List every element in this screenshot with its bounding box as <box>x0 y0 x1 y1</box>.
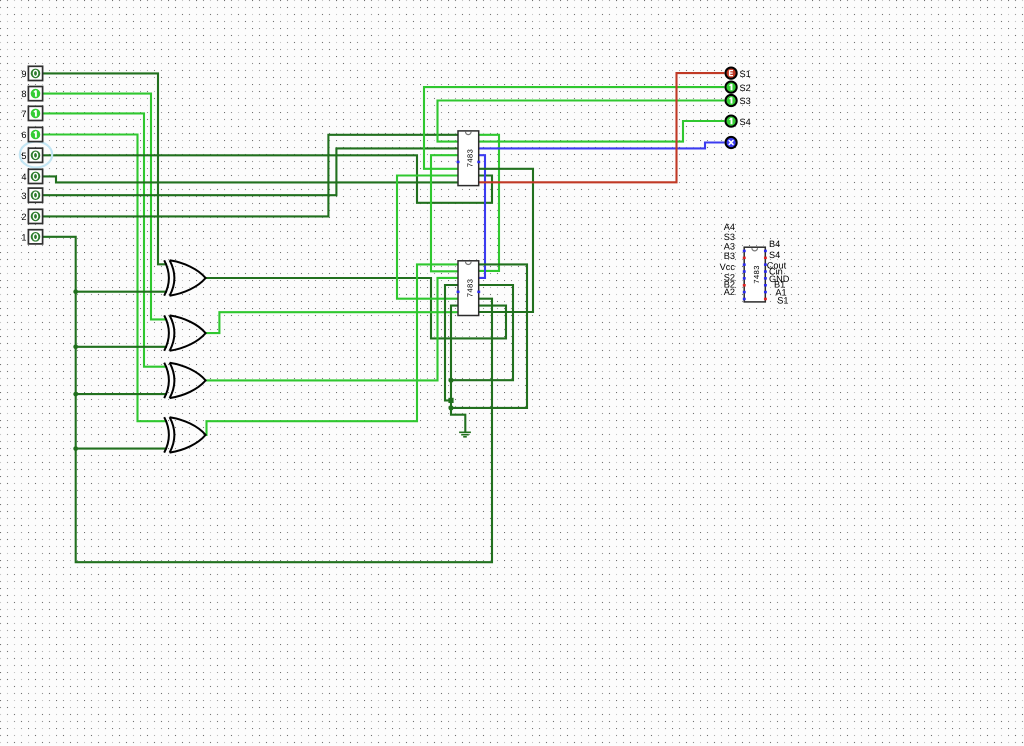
junction dot bus-XOR1 <box>73 289 78 294</box>
junction dot bus-XOR2 <box>73 344 78 349</box>
wire U1 pin S2 to indicator S2 <box>424 87 724 169</box>
output indicator S4 <box>726 116 751 127</box>
wire U2 pin B4 to ground node <box>451 264 527 408</box>
wire XOR3 output to U2 pin A3 <box>206 278 459 381</box>
svg-text:7483: 7483 <box>753 265 762 284</box>
svg-text:GND: GND <box>769 274 790 284</box>
wire input4 to U1 pin A2 <box>43 176 458 182</box>
ground symbol <box>459 432 471 437</box>
svg-text:7: 7 <box>21 109 26 119</box>
xor-gate X3 <box>164 363 205 398</box>
svg-text:6: 6 <box>21 130 26 140</box>
xor-gate X1 <box>164 260 205 295</box>
svg-text:A4: A4 <box>724 222 735 232</box>
junction dot ground node B4 <box>448 405 453 410</box>
wire U1 pin Cout to indicator X <box>479 143 725 149</box>
input pin 2 <box>21 209 42 223</box>
wire U1 pin S3 to indicator S3 <box>438 101 725 142</box>
wire bus branch to XOR3 lower input <box>76 393 167 395</box>
svg-text:1: 1 <box>21 232 26 242</box>
svg-text:B4: B4 <box>769 239 780 249</box>
wire XOR1 output to U2 pin A1 <box>206 278 507 338</box>
wire input3 to U1 pin A3 <box>43 148 458 195</box>
junction dot bus-XOR3 <box>73 392 78 397</box>
wire U2 pin S1 to U1 pin B1 <box>479 169 533 312</box>
wire XOR4 output to U2 pin A4 <box>206 264 459 435</box>
output indicator S2 <box>726 82 751 93</box>
wire input8 to XOR2 upper input <box>43 94 167 320</box>
output indicator S1 <box>726 68 751 79</box>
wire input7 to XOR3 upper input <box>43 113 167 366</box>
wire bus branch to XOR2 lower input <box>76 346 167 348</box>
wire U2 pin Cin to ground node <box>451 285 513 380</box>
wire U2 pin S2 to U1 pin B2 <box>397 176 458 299</box>
junction dot ground node Cin <box>448 378 453 383</box>
input pin 1 <box>21 230 42 244</box>
wire input9 to XOR1 upper input <box>43 73 167 264</box>
input pin 9 <box>21 66 42 80</box>
svg-text:7483: 7483 <box>467 278 476 297</box>
wire input2 to U1 pin A4 <box>43 135 458 217</box>
output indicator S3 <box>726 95 751 106</box>
output indicator X unknown <box>726 137 737 148</box>
wire U2 pin B2 to ground node <box>451 306 458 408</box>
wire input6 to XOR4 upper input <box>43 135 167 422</box>
xor-gate X4 <box>164 417 205 452</box>
wire bus branch to XOR1 lower input <box>76 291 167 293</box>
input pin 6 <box>21 127 42 141</box>
svg-text:S4: S4 <box>769 250 780 260</box>
wire U1 pin S1 to indicator S1 <box>479 73 725 182</box>
wire U2 pin B3 to ground node <box>445 285 458 400</box>
svg-text:S1: S1 <box>740 69 751 79</box>
svg-text:A2: A2 <box>724 287 735 297</box>
svg-text:9: 9 <box>21 69 26 79</box>
wire input1 bus to XOR lower inputs and U2 pin B1 <box>43 237 492 562</box>
svg-text:S3: S3 <box>740 96 751 106</box>
wire input5 to U1 pin A1 <box>43 155 492 203</box>
junction dot bus-XOR4 <box>73 446 78 451</box>
junction dot ground node B3 <box>448 398 453 403</box>
IC U2 7483 <box>457 261 481 316</box>
wire ground node to ground symbol <box>451 408 465 432</box>
svg-text:S3: S3 <box>724 232 735 242</box>
svg-text:2: 2 <box>21 212 26 222</box>
svg-text:5: 5 <box>21 151 26 161</box>
svg-text:B3: B3 <box>724 251 735 261</box>
U3 right pin marks <box>764 250 767 301</box>
wire U2 pin S3 to U1 pin B3 <box>431 155 458 271</box>
wire U1 pin S4 to indicator S4 <box>479 121 725 142</box>
input pin 7 <box>21 106 42 120</box>
svg-text:3: 3 <box>21 191 26 201</box>
IC U3 7483 floating <box>720 222 790 306</box>
svg-text:7483: 7483 <box>467 149 476 168</box>
svg-text:S2: S2 <box>740 83 751 93</box>
input pin 5 <box>21 148 42 162</box>
wire U2 pin Cout to U1 pin Cin <box>479 155 485 278</box>
svg-text:8: 8 <box>21 89 26 99</box>
svg-text:Vcc: Vcc <box>720 262 736 272</box>
svg-text:S1: S1 <box>777 296 788 306</box>
xor-gate X2 <box>164 315 205 350</box>
svg-text:4: 4 <box>21 172 26 182</box>
svg-text:S4: S4 <box>740 117 751 127</box>
IC U1 7483 <box>457 131 481 186</box>
input pin 8 <box>21 87 42 101</box>
wire XOR2 output to U2 pin A2 <box>206 312 459 333</box>
wire bus branch to XOR4 lower input <box>76 448 167 450</box>
svg-text:A3: A3 <box>724 242 735 252</box>
wire U2 pin S4 to U1 pin B4 <box>479 135 499 271</box>
input pin 4 <box>21 169 42 183</box>
input pin 3 <box>21 188 42 202</box>
U3 left pin marks <box>743 250 746 301</box>
selection highlight around input 5 <box>20 142 52 168</box>
